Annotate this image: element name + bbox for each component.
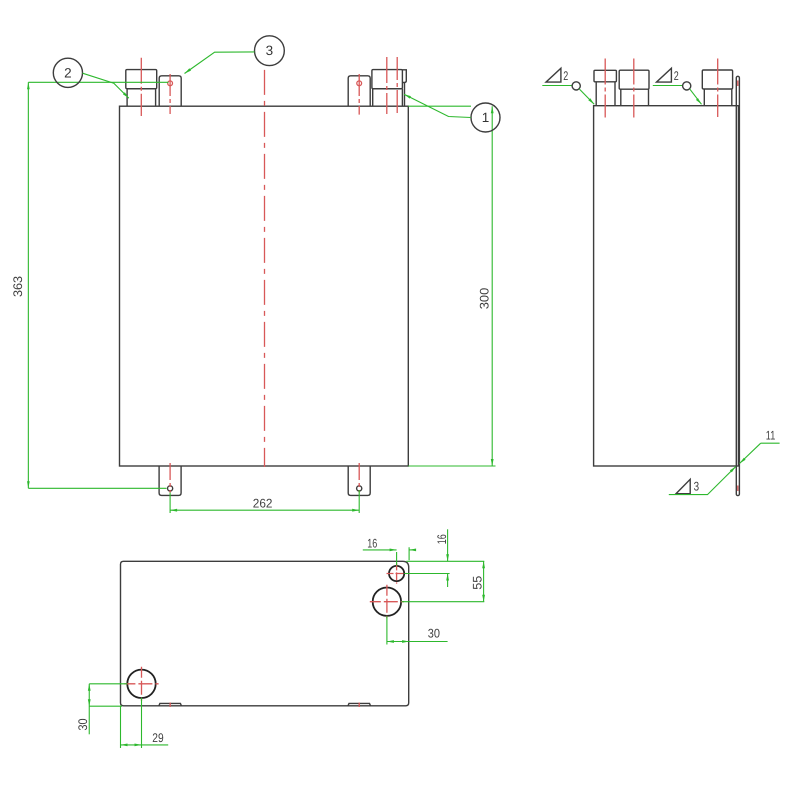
front view main centerline [264, 70, 266, 467]
svg-text:300: 300 [478, 288, 492, 310]
dimension 262 arrow left [170, 509, 177, 512]
notch B (leg B seen through) [348, 703, 371, 705]
side view body [594, 106, 739, 466]
dimension 30 left arrow up [88, 684, 91, 691]
dimension 30 left ext lines [89, 684, 127, 706]
notch A centerline [169, 703, 171, 708]
roughness symbol C arrow [730, 467, 736, 473]
dimension 16 vertical ext lines [404, 561, 484, 573]
roughness symbol B leader [690, 89, 702, 104]
balloon 3 [255, 36, 285, 66]
dimension 262 arrow right [352, 509, 359, 512]
svg-text:11: 11 [766, 428, 776, 442]
balloon 2 leader [83, 73, 129, 98]
dimension 55 ext line [402, 601, 485, 603]
side tab 1 centerline [604, 59, 606, 118]
side tab 1 cap [594, 70, 616, 82]
tab C centerline [358, 74, 360, 115]
side tab 1 body [596, 82, 615, 106]
side tab 2 cap [619, 70, 649, 89]
dimension 30 right line [387, 641, 448, 643]
label 11 underline [761, 442, 780, 444]
dimension 262 extension right [358, 490, 360, 513]
dimension 16 horizontal ext lines [397, 547, 410, 565]
tab D centerline 2 [396, 57, 398, 114]
large hole crosshair vertical [386, 585, 388, 618]
small hole crosshair vertical [396, 563, 398, 583]
tab D edge line [404, 83, 406, 106]
dimension 300 arrow top [491, 106, 494, 113]
dimension 29 arrow left-pointing [121, 744, 128, 747]
balloon 3 leader [185, 52, 255, 74]
dimension 300 extension top [408, 105, 471, 107]
dimension 30 right arrow left-pointing [387, 640, 394, 643]
bottom view body [121, 561, 409, 706]
svg-text:16: 16 [367, 537, 377, 551]
bottom-left hole crosshair horizontal [124, 683, 158, 685]
svg-text:3: 3 [694, 480, 700, 494]
side tab 2 body [621, 89, 649, 106]
dimension 30 right arrow right-pointing [402, 640, 409, 643]
dimension 363 arrow bottom [27, 481, 30, 488]
leg B (bottom-right) [348, 466, 370, 495]
roughness symbol C leader [669, 467, 736, 495]
dimension 16 horizontal line right [409, 549, 415, 551]
dimension 262 line [170, 509, 359, 511]
dimension 16 horizontal arrow left-pointing [409, 549, 416, 552]
tab B hole [168, 81, 173, 86]
roughness symbol A leader [579, 89, 594, 104]
dimension 16 vertical line bottom [447, 574, 449, 588]
svg-text:55: 55 [471, 576, 485, 590]
label 11 arrow [740, 458, 746, 464]
dimension 300 arrow bottom [491, 459, 494, 466]
roughness symbol A underline [542, 85, 572, 87]
small hole crosshair horizontal [387, 573, 407, 575]
leg A hole [168, 486, 173, 491]
tab D narrow edge tab [402, 70, 406, 83]
large hole right [373, 588, 401, 616]
tab D body [373, 89, 403, 106]
plate hole centerline bottom [737, 486, 739, 492]
notch B centerline [358, 703, 360, 708]
small hole top-right [389, 566, 404, 581]
svg-text:1: 1 [482, 110, 490, 125]
dimension 55 line [483, 561, 485, 601]
tab D centerline 1 [386, 57, 388, 114]
side tab 3 centerline [717, 59, 719, 118]
leg A (bottom-left) [159, 466, 181, 495]
side tab 3 cap [702, 70, 732, 89]
tab A centerline [140, 58, 142, 116]
roughness symbol A triangle [546, 68, 561, 82]
balloon 2 arrow [123, 92, 129, 98]
dimension 16 vertical arrow up [446, 574, 449, 581]
dimension 16 horizontal line left [363, 549, 397, 551]
dimension 363 arrow top [27, 82, 30, 89]
svg-text:30: 30 [76, 718, 90, 730]
roughness symbol C triangle [676, 479, 690, 493]
dimension 363 extension top [28, 81, 168, 83]
roughness symbol B arrow [696, 98, 702, 104]
dimension 262 extension left [169, 493, 171, 514]
roughness symbol B triangle [657, 68, 672, 82]
side flange plate [736, 76, 739, 495]
svg-text:3: 3 [266, 43, 274, 58]
leg B centerline [358, 463, 360, 493]
dimension 30 left arrow down [88, 699, 91, 706]
tab D cap (top-right big tab) [372, 70, 403, 89]
dimension 300 extension bottom [408, 465, 495, 467]
leg B hole [357, 486, 362, 491]
dimension 55 arrow top [482, 561, 485, 568]
roughness symbol B underline [653, 85, 683, 87]
side tab 3 body [704, 89, 732, 106]
dimension 29 line [121, 744, 169, 746]
dimension 363 line [27, 82, 29, 488]
balloon 3 arrow [185, 68, 192, 73]
dimension 30 left line [88, 684, 90, 735]
roughness symbol B circle [683, 82, 691, 90]
dimension 16 horizontal arrow right-pointing [390, 549, 397, 552]
plate hole centerline top [737, 81, 739, 87]
dimension 55 arrow bottom [482, 595, 485, 602]
balloon 2 [53, 58, 82, 87]
svg-text:363: 363 [11, 276, 25, 297]
dimension 300 line [491, 106, 493, 466]
dimension 29 arrow right-pointing [135, 744, 142, 747]
bottom-left hole crosshair vertical [141, 667, 143, 701]
dimension 29 ext lines [121, 698, 142, 748]
tab A body [127, 89, 156, 106]
tab C (rounded tab with hole, right) [348, 76, 370, 106]
dimension 16 vertical line top [447, 529, 449, 561]
tab A cap (top-left big tab) [126, 70, 157, 89]
svg-text:2: 2 [64, 65, 72, 80]
front view body [120, 106, 409, 466]
notch A (leg A seen through) [159, 703, 182, 705]
svg-text:29: 29 [152, 731, 163, 745]
roughness symbol A circle [572, 82, 580, 90]
balloon 1 [471, 103, 500, 132]
balloon 1 arrow [404, 94, 411, 98]
hole bottom-left [127, 670, 155, 698]
dimension 30 right ext line [386, 616, 388, 644]
svg-text:30: 30 [428, 627, 440, 641]
large hole crosshair horizontal [370, 601, 404, 603]
dimension 363 extension bottom [28, 487, 166, 489]
side tab 2 centerline [633, 59, 635, 118]
tab C hole [357, 81, 362, 86]
label 11 leader [740, 443, 761, 463]
leg A centerline [169, 463, 171, 493]
tab B centerline [169, 74, 171, 114]
svg-text:262: 262 [253, 496, 273, 510]
dimension 16 vertical arrow down [446, 554, 449, 561]
tab B (rounded tab with hole, left) [159, 76, 181, 106]
svg-text:2: 2 [674, 69, 679, 83]
balloon 1 leader [404, 94, 471, 117]
roughness symbol A arrow [588, 98, 594, 104]
svg-text:16: 16 [435, 534, 449, 544]
svg-text:2: 2 [563, 69, 568, 83]
